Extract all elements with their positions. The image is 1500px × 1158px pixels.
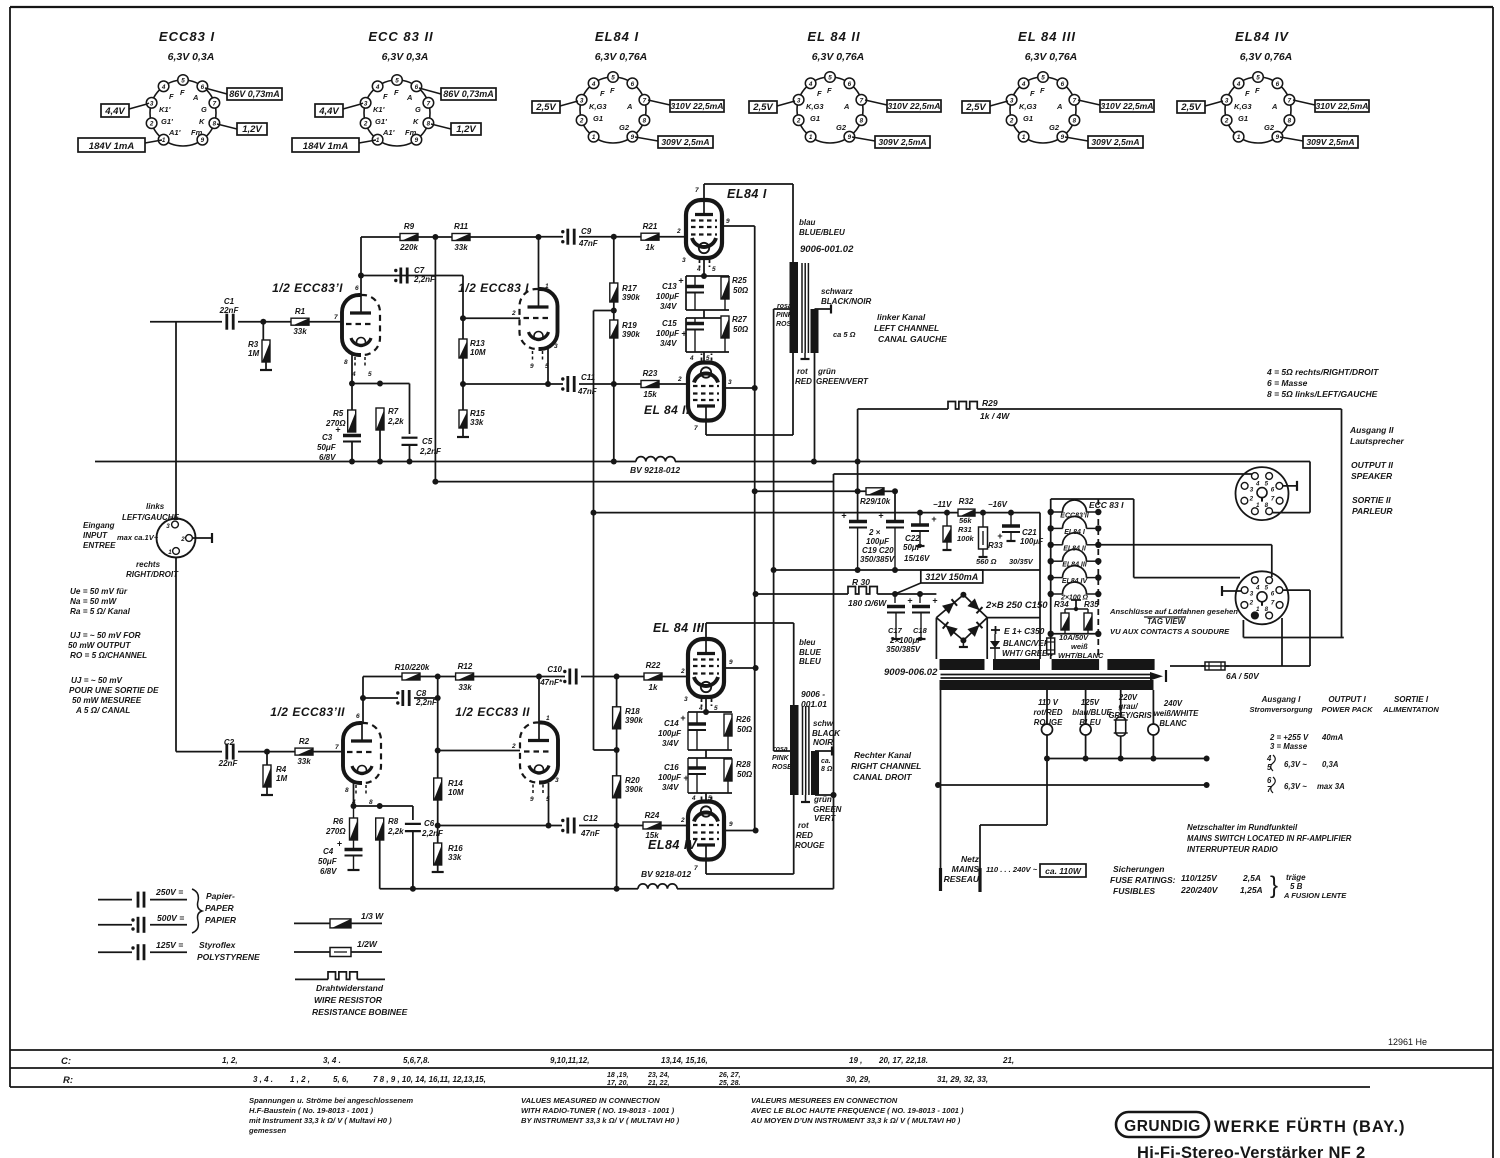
- svg-text:21, 22,: 21, 22,: [647, 1080, 669, 1087]
- svg-text:RIGHT/DROIT: RIGHT/DROIT: [126, 570, 179, 579]
- svg-text:6,3V ~: 6,3V ~: [1284, 782, 1307, 791]
- svg-text:1/3 W: 1/3 W: [361, 911, 384, 921]
- svg-text:weiß: weiß: [1071, 642, 1088, 651]
- svg-text:C18: C18: [913, 626, 928, 635]
- svg-text:A: A: [192, 93, 198, 102]
- svg-text:max 3A: max 3A: [1317, 782, 1345, 791]
- svg-text:125V =: 125V =: [156, 940, 183, 950]
- svg-text:INTERRUPTEUR RADIO: INTERRUPTEUR RADIO: [1187, 845, 1278, 854]
- svg-text:ECC 83 II: ECC 83 II: [368, 29, 433, 44]
- svg-text:Netzschalter im Rundfunkteil: Netzschalter im Rundfunkteil: [1187, 823, 1298, 832]
- svg-text:EL84 IV: EL84 IV: [648, 838, 698, 852]
- svg-text:2,2nF: 2,2nF: [419, 447, 442, 456]
- svg-text:2: 2: [1009, 118, 1014, 125]
- svg-text:2,5A: 2,5A: [1242, 873, 1261, 883]
- svg-text:9: 9: [729, 659, 733, 666]
- svg-text:8: 8: [213, 121, 217, 128]
- svg-text:4: 4: [698, 705, 703, 712]
- svg-text:7: 7: [213, 100, 217, 107]
- svg-text:3: 3: [682, 257, 686, 264]
- svg-text:K,G3: K,G3: [1019, 102, 1037, 111]
- svg-text:3/4V: 3/4V: [660, 302, 677, 311]
- svg-text:5, 6,: 5, 6,: [333, 1075, 349, 1084]
- svg-text:2: 2: [579, 118, 584, 125]
- svg-text:+: +: [907, 596, 912, 606]
- svg-text:2: 2: [1249, 600, 1254, 607]
- svg-text:links: links: [146, 502, 165, 511]
- svg-text:3: 3: [1225, 97, 1229, 104]
- svg-text:F: F: [180, 88, 185, 97]
- svg-text:310V 22,5mA: 310V 22,5mA: [1315, 101, 1368, 111]
- svg-text:40mA: 40mA: [1321, 733, 1344, 742]
- svg-text:309V 2,5mA: 309V 2,5mA: [1306, 137, 1354, 147]
- svg-text:2,2k: 2,2k: [387, 827, 404, 836]
- svg-text:3: 3: [555, 777, 559, 784]
- svg-text:2,5V: 2,5V: [752, 102, 773, 113]
- svg-text:C12: C12: [583, 814, 598, 823]
- svg-text:6,3V ~: 6,3V ~: [1284, 760, 1307, 769]
- svg-text:1k: 1k: [646, 243, 655, 252]
- svg-text:33k: 33k: [458, 683, 472, 692]
- svg-text:TAG VIEW: TAG VIEW: [1147, 617, 1186, 626]
- svg-text:A FUSION LENTE: A FUSION LENTE: [1283, 891, 1347, 900]
- svg-text:6/8V: 6/8V: [320, 867, 337, 876]
- svg-text:PAPIER: PAPIER: [205, 915, 237, 925]
- svg-text:ECC 83 I: ECC 83 I: [1089, 500, 1124, 510]
- svg-text:K1': K1': [373, 105, 385, 114]
- svg-text:5: 5: [1041, 75, 1045, 82]
- svg-text:träge: träge: [1286, 873, 1306, 882]
- svg-text:4: 4: [691, 795, 696, 802]
- svg-text:7: 7: [643, 97, 647, 104]
- svg-text:R8: R8: [388, 817, 399, 826]
- svg-text:PINK: PINK: [776, 312, 794, 319]
- svg-text:19 ,: 19 ,: [849, 1056, 862, 1065]
- svg-text:3: 3: [150, 100, 154, 107]
- svg-text:110/125V: 110/125V: [1181, 873, 1218, 883]
- svg-text:2: 2: [796, 118, 801, 125]
- svg-text:100μF: 100μF: [866, 537, 890, 546]
- svg-text:2: 2: [511, 743, 516, 750]
- svg-text:Ue = 50 mV für: Ue = 50 mV für: [70, 587, 128, 596]
- svg-text:6: 6: [415, 84, 419, 91]
- svg-text:3: 3: [1250, 591, 1254, 598]
- svg-text:18 ,19,: 18 ,19,: [607, 1072, 628, 1079]
- svg-text:R15: R15: [470, 409, 485, 418]
- svg-text:BLACK: BLACK: [812, 729, 841, 738]
- svg-text:50 mW OUTPUT: 50 mW OUTPUT: [68, 641, 131, 650]
- svg-text:6: 6: [1061, 81, 1065, 88]
- svg-text:SPEAKER: SPEAKER: [1351, 471, 1393, 481]
- svg-text:+: +: [335, 425, 340, 435]
- svg-text:R27: R27: [732, 315, 747, 324]
- svg-text:AU MOYEN D’UN INSTRUMENT 33: AU MOYEN D’UN INSTRUMENT 33,3 k Ω/ V ( M…: [750, 1116, 961, 1125]
- svg-text:8 = 5Ω links/LEFT/GAUCHE: 8 = 5Ω links/LEFT/GAUCHE: [1267, 389, 1378, 399]
- svg-text:17, 20,: 17, 20,: [607, 1080, 628, 1087]
- svg-text:2,2nF: 2,2nF: [413, 275, 436, 284]
- svg-text:100μF: 100μF: [656, 329, 680, 338]
- svg-text:F: F: [600, 89, 605, 98]
- svg-text:33k: 33k: [454, 243, 468, 252]
- svg-text:1: 1: [1256, 606, 1260, 613]
- svg-text:K: K: [199, 117, 205, 126]
- svg-text:8: 8: [369, 799, 373, 806]
- svg-text:100k: 100k: [957, 534, 975, 543]
- svg-text:1: 1: [1256, 502, 1260, 509]
- svg-text:F: F: [817, 89, 822, 98]
- svg-text:8: 8: [427, 121, 431, 128]
- svg-text:5: 5: [714, 705, 718, 712]
- svg-text:WHT/ GREEN: WHT/ GREEN: [1002, 649, 1053, 658]
- svg-text:1: 1: [545, 283, 549, 290]
- svg-text:26, 27,: 26, 27,: [718, 1072, 740, 1079]
- svg-text:G: G: [415, 105, 421, 114]
- svg-text:4: 4: [1021, 81, 1026, 88]
- svg-text:312V 150mA: 312V 150mA: [925, 572, 978, 582]
- svg-text:9: 9: [848, 134, 852, 141]
- svg-text:F: F: [169, 92, 174, 101]
- svg-text:20, 17, 22,18.: 20, 17, 22,18.: [878, 1056, 928, 1065]
- svg-text:184V 1mA: 184V 1mA: [303, 141, 349, 152]
- svg-text:Drahtwiderstand: Drahtwiderstand: [316, 983, 384, 993]
- svg-text:22nF: 22nF: [219, 306, 240, 315]
- svg-text:1: 1: [546, 715, 550, 722]
- svg-text:ca. 110W: ca. 110W: [1045, 866, 1082, 876]
- svg-text:8: 8: [1288, 118, 1292, 125]
- svg-text:15/16V: 15/16V: [904, 554, 930, 563]
- svg-text:9: 9: [1276, 134, 1280, 141]
- svg-text:50μF: 50μF: [317, 443, 337, 452]
- svg-text:C10: C10: [547, 665, 562, 674]
- svg-text:5: 5: [1265, 480, 1269, 487]
- svg-text:10M: 10M: [470, 348, 486, 357]
- svg-text:PARLEUR: PARLEUR: [1352, 506, 1393, 516]
- svg-text:F: F: [394, 88, 399, 97]
- svg-text:3: 3: [1010, 97, 1014, 104]
- svg-text:8: 8: [1265, 606, 1269, 613]
- svg-text:2,5V: 2,5V: [535, 102, 556, 113]
- svg-text:G1': G1': [161, 117, 173, 126]
- svg-text:310V 22,5mA: 310V 22,5mA: [1100, 101, 1153, 111]
- svg-text:E 1+ C350: E 1+ C350: [1004, 626, 1045, 636]
- svg-text:7 8 , 9 , 10, 14, 16,11, 12,: 7 8 , 9 , 10, 14, 16,11, 12,13,15,: [373, 1075, 486, 1084]
- svg-text:309V 2,5mA: 309V 2,5mA: [1091, 137, 1139, 147]
- svg-text:8: 8: [344, 359, 348, 366]
- svg-text:31, 29, 32, 33,: 31, 29, 32, 33,: [937, 1075, 988, 1084]
- svg-text:F: F: [1030, 89, 1035, 98]
- svg-text:EL84 I: EL84 I: [727, 187, 767, 201]
- svg-text:310V 22,5mA: 310V 22,5mA: [670, 101, 723, 111]
- svg-text:2: 2: [680, 817, 685, 824]
- svg-text:WERKE FÜRTH (BAY.): WERKE FÜRTH (BAY.): [1214, 1117, 1406, 1136]
- svg-text:7: 7: [334, 314, 338, 321]
- svg-text:Lautsprecher: Lautsprecher: [1350, 436, 1405, 446]
- svg-text:350/385V: 350/385V: [860, 555, 895, 564]
- svg-text:blau/BLUE: blau/BLUE: [1072, 708, 1112, 717]
- svg-text:R19: R19: [622, 321, 637, 330]
- svg-text:270Ω: 270Ω: [325, 827, 346, 836]
- svg-text:GREEN: GREEN: [813, 805, 842, 814]
- svg-text:309V 2,5mA: 309V 2,5mA: [878, 137, 926, 147]
- svg-text:5: 5: [181, 78, 185, 85]
- svg-text:2×100μF: 2×100μF: [889, 636, 923, 645]
- svg-text:6: 6: [1271, 486, 1275, 493]
- svg-text:A1': A1': [168, 128, 181, 137]
- svg-text:9,10,11,12,: 9,10,11,12,: [550, 1056, 589, 1065]
- svg-text:2 = +255 V: 2 = +255 V: [1269, 733, 1309, 742]
- svg-text:2,5V: 2,5V: [965, 102, 986, 113]
- svg-text:50Ω: 50Ω: [737, 725, 753, 734]
- svg-text:+: +: [678, 276, 683, 286]
- svg-text:ca.: ca.: [821, 758, 831, 765]
- svg-text:Papier-: Papier-: [206, 891, 235, 901]
- svg-text:2,2k: 2,2k: [387, 417, 404, 426]
- svg-text:C:: C:: [61, 1056, 71, 1067]
- svg-text:30/35V: 30/35V: [1009, 557, 1034, 566]
- svg-text:blau: blau: [799, 218, 816, 227]
- svg-text:K,G3: K,G3: [806, 102, 824, 111]
- svg-text:EL84 I: EL84 I: [595, 29, 639, 44]
- svg-text:50Ω: 50Ω: [737, 770, 753, 779]
- svg-text:WITH RADIO-TUNER ( NO. 19-801: WITH RADIO-TUNER ( NO. 19-8013 - 1001 ): [521, 1106, 675, 1115]
- svg-text:C6: C6: [424, 819, 435, 828]
- svg-text:R9: R9: [404, 222, 415, 231]
- svg-text:2: 2: [676, 228, 681, 235]
- svg-text:4: 4: [1255, 480, 1260, 487]
- svg-text:FUSIBLES: FUSIBLES: [1113, 886, 1155, 896]
- svg-text:C21: C21: [1022, 528, 1037, 537]
- svg-text:C22: C22: [905, 534, 920, 543]
- svg-text:F: F: [1245, 89, 1250, 98]
- svg-text:3: 3: [1250, 486, 1254, 493]
- svg-text:K1': K1': [159, 105, 171, 114]
- svg-text:RED: RED: [795, 377, 812, 386]
- svg-text:5: 5: [828, 75, 832, 82]
- svg-text:max ca.1V~: max ca.1V~: [117, 533, 159, 542]
- svg-text:EL84 IV: EL84 IV: [1235, 29, 1289, 44]
- svg-text:4,4V: 4,4V: [104, 106, 125, 117]
- svg-text:2,2nF: 2,2nF: [415, 698, 438, 707]
- svg-text:4,4V: 4,4V: [318, 106, 339, 117]
- svg-text:R14: R14: [448, 779, 463, 788]
- svg-text:}: }: [1270, 872, 1278, 899]
- svg-text:1: 1: [592, 134, 596, 141]
- svg-text:A: A: [1056, 102, 1062, 111]
- svg-text:R31: R31: [958, 525, 972, 534]
- svg-text:250V =: 250V =: [155, 887, 183, 897]
- svg-text:G2: G2: [619, 123, 630, 132]
- svg-text:+: +: [680, 713, 685, 723]
- svg-text:30, 29,: 30, 29,: [846, 1075, 870, 1084]
- svg-text:9006 -: 9006 -: [801, 689, 825, 699]
- svg-text:3: 3: [166, 523, 170, 530]
- svg-text:Sicherungen: Sicherungen: [1113, 864, 1164, 874]
- svg-text:1, 2,: 1, 2,: [222, 1056, 238, 1065]
- svg-text:NOIR: NOIR: [813, 738, 833, 747]
- svg-text:OUTPUT I: OUTPUT I: [1328, 695, 1366, 704]
- svg-text:100μF: 100μF: [658, 773, 682, 782]
- svg-text:R24: R24: [645, 811, 660, 820]
- svg-text:6,3V 0,3A: 6,3V 0,3A: [168, 51, 215, 63]
- svg-text:2: 2: [1249, 495, 1254, 502]
- svg-text:G1: G1: [593, 114, 603, 123]
- svg-text:180 Ω/6W: 180 Ω/6W: [848, 598, 887, 608]
- svg-text:6: 6: [201, 84, 205, 91]
- svg-text:23, 24,: 23, 24,: [647, 1072, 669, 1079]
- svg-text:9: 9: [415, 137, 419, 144]
- svg-text:BLEU: BLEU: [799, 657, 821, 666]
- svg-text:R:: R:: [63, 1075, 73, 1086]
- svg-text:1/2 ECC83’I: 1/2 ECC83’I: [272, 281, 343, 295]
- svg-text:G: G: [201, 105, 207, 114]
- svg-text:1/2 ECC83’II: 1/2 ECC83’II: [270, 705, 345, 719]
- svg-text:1: 1: [1237, 134, 1241, 141]
- svg-text:ENTREE: ENTREE: [83, 541, 116, 550]
- svg-text:0,3A: 0,3A: [1322, 760, 1339, 769]
- svg-text:5 B: 5 B: [1290, 882, 1303, 891]
- svg-text:2: 2: [1224, 118, 1229, 125]
- svg-text:R4: R4: [276, 765, 287, 774]
- svg-text:K: K: [413, 117, 419, 126]
- svg-text:13,14, 15,16,: 13,14, 15,16,: [661, 1056, 708, 1065]
- svg-text:2,2nF: 2,2nF: [421, 829, 444, 838]
- svg-text:3 = Masse: 3 = Masse: [1270, 742, 1308, 751]
- svg-text:VALEURS MESUREES EN CONNECT: VALEURS MESUREES EN CONNECTION: [751, 1096, 898, 1105]
- svg-text:25, 28.: 25, 28.: [718, 1080, 740, 1087]
- svg-text:F: F: [1255, 86, 1260, 95]
- svg-text:ROUGE: ROUGE: [795, 841, 825, 850]
- svg-text:R28: R28: [736, 760, 751, 769]
- svg-text:220k: 220k: [399, 243, 418, 252]
- svg-text:Fm: Fm: [405, 128, 417, 137]
- svg-text:240V: 240V: [1163, 699, 1183, 708]
- svg-text:1: 1: [162, 137, 166, 144]
- svg-text:Netz: Netz: [961, 854, 980, 864]
- svg-text:100μF: 100μF: [656, 292, 680, 301]
- svg-text:RED: RED: [796, 831, 813, 840]
- svg-text:ALIMENTATION: ALIMENTATION: [1382, 705, 1439, 714]
- svg-text:3/4V: 3/4V: [660, 339, 677, 348]
- svg-text:C5: C5: [422, 437, 433, 446]
- svg-text:LEFT/GAUCHE: LEFT/GAUCHE: [122, 513, 180, 522]
- svg-text:schw: schw: [813, 719, 834, 728]
- svg-text:4: 4: [1266, 754, 1272, 763]
- svg-text:POWER PACK: POWER PACK: [1321, 705, 1373, 714]
- svg-text:FUSE RATINGS:: FUSE RATINGS:: [1110, 875, 1176, 885]
- svg-text:RIGHT CHANNEL: RIGHT CHANNEL: [851, 761, 921, 771]
- svg-text:linker Kanal: linker Kanal: [877, 312, 926, 322]
- svg-text:6,3V 0,76A: 6,3V 0,76A: [595, 51, 648, 63]
- svg-text:C9: C9: [581, 227, 592, 236]
- svg-text:1: 1: [809, 134, 813, 141]
- svg-text:220/240V: 220/240V: [1180, 885, 1219, 895]
- svg-text:Stromversorgung: Stromversorgung: [1250, 705, 1313, 714]
- svg-text:3/4V: 3/4V: [662, 739, 679, 748]
- svg-text:125V: 125V: [1081, 698, 1100, 707]
- svg-text:MAINS: MAINS: [952, 864, 980, 874]
- svg-text:6,3V 0,76A: 6,3V 0,76A: [1240, 51, 1293, 63]
- svg-text:184V 1mA: 184V 1mA: [89, 141, 135, 152]
- svg-text:47nF*: 47nF*: [539, 678, 563, 687]
- svg-text:R26: R26: [736, 715, 751, 724]
- svg-text:Hi-Fi-Stereo-Verstärker NF 2: Hi-Fi-Stereo-Verstärker NF 2: [1137, 1144, 1365, 1158]
- svg-text:86V 0,73mA: 86V 0,73mA: [443, 89, 494, 99]
- svg-text:F: F: [383, 92, 388, 101]
- svg-text:390k: 390k: [622, 330, 640, 339]
- svg-text:Styroflex: Styroflex: [199, 940, 237, 950]
- svg-text:47nF: 47nF: [580, 829, 601, 838]
- svg-text:R22: R22: [646, 661, 661, 670]
- svg-text:310V 22,5mA: 310V 22,5mA: [887, 101, 940, 111]
- svg-text:OUTPUT II: OUTPUT II: [1351, 460, 1394, 470]
- svg-text:A: A: [1271, 102, 1277, 111]
- svg-text:Rechter Kanal: Rechter Kanal: [854, 750, 912, 760]
- svg-text:220V: 220V: [1118, 693, 1138, 702]
- svg-text:10M: 10M: [448, 788, 464, 797]
- svg-text:R3: R3: [248, 340, 259, 349]
- svg-text:K,G3: K,G3: [589, 102, 607, 111]
- svg-text:4: 4: [689, 355, 694, 362]
- svg-text:1,2V: 1,2V: [242, 124, 262, 135]
- svg-text:LEFT CHANNEL: LEFT CHANNEL: [874, 323, 939, 333]
- svg-text:47nF: 47nF: [578, 239, 599, 248]
- svg-text:3: 3: [364, 100, 368, 107]
- svg-text:56k: 56k: [959, 516, 972, 525]
- svg-text:Spannungen u. Ströme bei anges: Spannungen u. Ströme bei angeschlossenem: [249, 1096, 413, 1105]
- svg-text:3/4V: 3/4V: [662, 783, 679, 792]
- svg-text:rosa: rosa: [773, 746, 788, 753]
- svg-text:50 mW MESUREE: 50 mW MESUREE: [72, 696, 142, 705]
- svg-text:12961 He: 12961 He: [1388, 1037, 1427, 1047]
- svg-text:AVEC LE BLOC HAUTE FREQUENCE: AVEC LE BLOC HAUTE FREQUENCE ( NO. 19-80…: [750, 1106, 964, 1115]
- svg-text:1M: 1M: [276, 774, 287, 783]
- svg-text:SORTIE I: SORTIE I: [1394, 695, 1429, 704]
- svg-text:G2: G2: [836, 123, 847, 132]
- svg-text:ROSE: ROSE: [776, 321, 796, 328]
- svg-text:9: 9: [1061, 134, 1065, 141]
- svg-text:R2: R2: [299, 737, 310, 746]
- svg-text:7: 7: [694, 865, 698, 872]
- svg-text:100μF: 100μF: [658, 729, 682, 738]
- svg-text:2: 2: [677, 376, 682, 383]
- svg-text:A1': A1': [382, 128, 395, 137]
- svg-text:R21: R21: [643, 222, 658, 231]
- svg-text:9006-001.02: 9006-001.02: [800, 244, 854, 255]
- svg-text:−11V: −11V: [933, 500, 952, 509]
- svg-text:309V 2,5mA: 309V 2,5mA: [661, 137, 709, 147]
- svg-text:9: 9: [530, 363, 534, 370]
- svg-text:5: 5: [1256, 75, 1260, 82]
- svg-text:3, 4 .: 3, 4 .: [323, 1056, 341, 1065]
- svg-text:POUR UNE SORTIE DE: POUR UNE SORTIE DE: [69, 686, 159, 695]
- svg-text:R35: R35: [1084, 600, 1099, 609]
- svg-text:1k: 1k: [649, 683, 658, 692]
- svg-text:7: 7: [1271, 600, 1275, 607]
- svg-text:6: 6: [1276, 81, 1280, 88]
- svg-text:C16: C16: [664, 763, 679, 772]
- svg-text:ECC83 I: ECC83 I: [159, 29, 215, 44]
- svg-text:7: 7: [1073, 97, 1077, 104]
- svg-text:8: 8: [1265, 502, 1269, 509]
- svg-text:CANAL DROIT: CANAL DROIT: [853, 772, 912, 782]
- svg-text:+: +: [337, 839, 342, 849]
- svg-text:G1': G1': [375, 117, 387, 126]
- svg-text:rechts: rechts: [136, 560, 161, 569]
- svg-text:POLYSTYRENE: POLYSTYRENE: [197, 952, 260, 962]
- svg-text:C17: C17: [888, 626, 903, 635]
- svg-text:4: 4: [1236, 81, 1241, 88]
- svg-text:Ausgang II: Ausgang II: [1349, 425, 1394, 435]
